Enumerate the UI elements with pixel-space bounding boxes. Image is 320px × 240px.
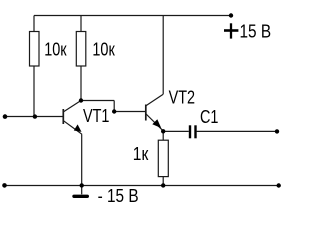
wire R1 bottom lead to base node — [33, 66, 35, 117]
wire top supply rail — [34, 15, 231, 17]
svg-text:C1: C1 — [200, 106, 218, 127]
transistor VT1 emitter stroke — [64, 121, 82, 135]
svg-text:1к: 1к — [133, 144, 149, 165]
power -15V bar symbol — [74, 195, 87, 198]
wire R3 bottom lead — [162, 177, 164, 186]
wire R2 top lead — [80, 16, 82, 32]
svg-text:10к: 10к — [92, 39, 115, 60]
wire VT1 emitter down to bottom rail — [81, 134, 83, 185]
capacitor C1 right plate — [194, 125, 196, 138]
wire R2 bottom lead to collector node — [80, 66, 82, 101]
node terminal output right — [275, 129, 279, 133]
node input terminal left — [3, 114, 8, 119]
wire to VT2 base — [114, 111, 145, 113]
node junction VT1 emitter bottom rail — [80, 183, 84, 187]
svg-text:15 В: 15 В — [240, 21, 272, 42]
wire bottom supply rail — [5, 185, 279, 187]
svg-text:VT1: VT1 — [83, 105, 109, 126]
node junction R3 bottom rail — [161, 183, 165, 187]
power +15V plus symbol — [230, 23, 232, 38]
node terminal bottom right — [277, 183, 281, 187]
transistor VT2 collector stroke — [146, 94, 163, 105]
wire -15V stub — [81, 186, 83, 195]
wire input to VT1 base — [5, 116, 63, 118]
node terminal +15V top right — [229, 13, 233, 17]
wire emitter node to C1 — [163, 130, 189, 132]
wire corner vertical down to VT2 base level — [113, 101, 115, 112]
wire C1 to output — [197, 130, 277, 132]
node junction VT2 emitter — [161, 129, 165, 133]
resistor R1 10k body — [30, 32, 40, 67]
transistor VT1 emitter arrow — [74, 124, 82, 131]
svg-text:10к: 10к — [44, 39, 67, 60]
node junction corner VT2 base wire — [112, 109, 116, 113]
wire collector node to VT2 base horizontal — [81, 100, 114, 102]
transistor VT2 emitter stroke — [146, 114, 163, 131]
node junction VT1 collector R2 — [79, 98, 83, 102]
wire R1 top lead — [33, 16, 35, 32]
transistor VT1 base bar — [62, 109, 64, 124]
resistor R3 1k body — [158, 140, 168, 176]
wire VT2 collector to top rail — [162, 16, 164, 95]
svg-text:- 15 В: - 15 В — [98, 186, 139, 207]
transistor VT2 base bar — [145, 105, 147, 121]
capacitor C1 left plate — [189, 125, 191, 138]
node junction R1 and VT1 base — [33, 114, 37, 118]
resistor R2 10k body — [76, 32, 86, 67]
wire emitter node down to R3 — [162, 131, 164, 140]
transistor VT2 emitter arrow — [152, 119, 161, 128]
transistor VT1 collector stroke — [64, 101, 81, 112]
svg-text:VT2: VT2 — [169, 87, 195, 108]
node terminal bottom left — [2, 183, 7, 188]
